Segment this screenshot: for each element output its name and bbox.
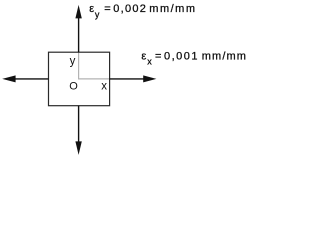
svg-text:x: x xyxy=(101,80,107,92)
svg-text:y: y xyxy=(70,56,76,68)
svg-text:O: O xyxy=(69,80,78,92)
